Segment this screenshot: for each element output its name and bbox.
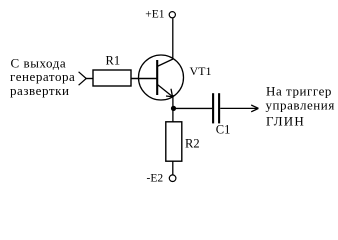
input signal arrow [79, 72, 87, 85]
svg-text:+E1: +E1 [145, 9, 165, 21]
resistor R1 [93, 54, 131, 87]
wire junction to C1 [174, 107, 213, 109]
wire R1 to base [131, 78, 157, 80]
svg-text:развертки: развертки [10, 83, 69, 98]
input text "С выхода генератора развертки" [10, 56, 75, 99]
svg-text:генератора: генератора [10, 69, 75, 84]
svg-text:C1: C1 [216, 123, 231, 137]
-E2 terminal [147, 173, 176, 185]
node junction [171, 106, 176, 111]
wire R2 to -E2 [172, 161, 174, 175]
svg-text:VT1: VT1 [190, 64, 212, 78]
output text "На триггер управления ГЛИН" [266, 84, 335, 129]
svg-text:ГЛИН: ГЛИН [266, 113, 305, 128]
wire C1 to output arrow [220, 105, 258, 112]
wire collector to +E1 [172, 18, 174, 59]
capacitor C1 [213, 93, 230, 136]
wire emitter down [172, 95, 174, 122]
transistor VT1 [139, 55, 184, 100]
svg-text:R2: R2 [185, 137, 200, 151]
svg-text:-E2: -E2 [147, 173, 164, 185]
svg-text:R1: R1 [106, 54, 121, 68]
wire input arrow to R1 [86, 78, 93, 80]
resistor R2 [166, 122, 200, 161]
svg-text:управления: управления [266, 97, 335, 112]
+E1 terminal [145, 9, 175, 21]
